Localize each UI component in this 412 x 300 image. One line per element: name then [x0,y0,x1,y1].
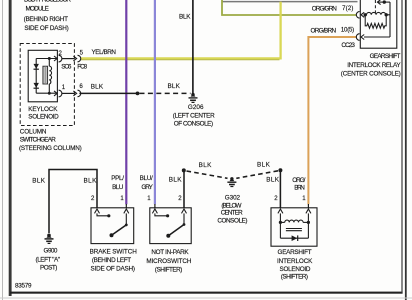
svg-text:(SHIFTER): (SHIFTER) [281,273,308,280]
junction dot relay coil right [385,13,388,16]
keylock pin 2 arrow [54,56,57,61]
svg-text:BLK: BLK [179,13,191,20]
micro pin 1 arrow [152,209,157,213]
micro pin 2 contact [183,213,186,226]
wire BLK G900 run [49,170,97,234]
micro pin 1 stub [154,204,156,208]
svg-text:INTERLOCK: INTERLOCK [277,258,313,265]
svg-text:CENTER: CENTER [221,210,243,217]
label KEYLOCK SOLENOID [28,106,59,120]
solenoid pin 1 arrow [306,209,311,213]
svg-text:BLU: BLU [112,184,124,191]
relay actuator dashed line [374,0,376,13]
label BRAKE SWITCH (BEHIND LEFT SIDE OF DASH) [90,248,138,272]
wire BLK dashed left to G302 [187,171,228,178]
svg-text:(SHIFTER): (SHIFTER) [155,266,183,273]
wire BLK dashed right to G302 [236,171,278,179]
svg-text:BLK: BLK [168,83,181,90]
relay pin 10(5) socket [356,34,359,41]
svg-text:SC6: SC6 [61,63,72,70]
svg-text:MODULE: MODULE [26,6,49,13]
junction dot relay coil left [364,13,367,16]
keylock coil L1 [43,59,52,94]
svg-text:NOT IN-PARK: NOT IN-PARK [151,249,189,256]
svg-text:G206: G206 [188,104,204,111]
label PPL/ BLU [111,175,124,191]
svg-text:ORG/: ORG/ [292,177,305,184]
relay internal wire right [389,2,391,37]
svg-text:YEL/BRN: YEL/BRN [92,49,117,56]
svg-text:(BEHIND RIGHT: (BEHIND RIGHT [24,16,69,23]
relay pin 7(2) arrow [361,12,364,17]
diode D2 (keylock lower) [34,83,39,88]
junction dot left (G302 net) [182,168,186,172]
gearshift interlock solenoid L2 box [271,208,317,246]
relay resistor R1 [365,15,386,28]
label COLUMN SWITCHGEAR (STEERING COLUMN) [19,128,82,152]
svg-text:5: 5 [80,50,84,57]
junction dot right (G302 net) [278,168,282,172]
svg-text:G900: G900 [44,248,58,255]
keylock internal top rail [36,58,57,60]
junction dot solenoid right [307,221,310,224]
junction dot keylock bottom [48,92,51,95]
svg-text:GEARSHIFT: GEARSHIFT [278,249,312,256]
relay coil [365,12,390,14]
wire PPL/BLU vertical [125,0,127,204]
svg-text:2: 2 [59,50,63,57]
svg-text:BLK: BLK [91,83,104,90]
label ORG/ BRN (solenoid pin1) [292,177,305,192]
svg-text:BLK: BLK [257,161,271,168]
relay pin 10(5) arrow [361,35,364,40]
svg-text:BRAKE SWITCH: BRAKE SWITCH [90,248,138,255]
svg-text:BLK: BLK [199,162,213,169]
svg-text:MICROSWITCH: MICROSWITCH [146,258,192,265]
right inner border [401,0,403,293]
relay armature wire [377,0,390,5]
svg-text:SWITCHGEAR: SWITCHGEAR [20,136,56,143]
svg-text:SIDE OF DASH): SIDE OF DASH) [91,265,136,272]
ground G206 [189,93,198,103]
svg-text:SOLENOID: SOLENOID [280,266,311,273]
wire BLK to G206 vertical [192,0,194,94]
right outer border bar [405,0,407,300]
module U1 label: BODY PROCESSOR MODULE (cut at top) [24,0,72,32]
connector SC6 pin 1 socket [59,90,62,97]
brake switch lever [110,225,127,237]
svg-text:10(5): 10(5) [341,27,354,34]
column switchgear dashed box [20,44,74,126]
svg-text:GRY: GRY [141,184,153,191]
svg-text:6: 6 [79,83,83,90]
svg-text:BLK: BLK [266,177,280,184]
micro pin 1 contact [155,213,169,217]
svg-text:BODY PROCESSOR: BODY PROCESSOR [24,0,71,4]
micro pin 2 arrow [182,209,187,213]
svg-text:1: 1 [120,195,124,202]
wire BLK micro pin 2 vertical [183,170,185,207]
svg-text:2: 2 [91,195,95,202]
brake pin 2 arrow [95,209,100,213]
connector FC8 pin 5 arrow [73,56,76,61]
label GEARSHIFT INTERLOCK RELAY (CENTER CONSOLE) [341,53,402,78]
keylock solenoid box [28,50,57,102]
not in-park microswitch S2 box [150,208,191,244]
svg-text:(BEHIND LEFT: (BEHIND LEFT [92,257,131,264]
svg-text:1: 1 [302,195,306,202]
solenoid left branch [279,213,281,238]
svg-text:83579: 83579 [15,283,32,290]
wire YEL/BRN [81,2,281,60]
svg-text:GEARSHIFT: GEARSHIFT [370,53,401,60]
relay pin 7(2) socket [356,12,359,19]
svg-text:CONSOLE): CONSOLE) [217,217,247,224]
svg-text:OF CONSOLE): OF CONSOLE) [174,121,213,128]
svg-text:1: 1 [62,84,66,91]
solenoid pin 2 arrow [278,209,283,213]
svg-text:(BELOW: (BELOW [221,202,241,209]
svg-text:KEYLOCK: KEYLOCK [28,106,58,113]
gearshift interlock relay K1 box [360,0,397,48]
keylock diode branch wire [35,59,37,94]
svg-text:FC8: FC8 [77,63,87,70]
svg-text:BLU/: BLU/ [140,175,153,182]
diode D3 (solenoid) [292,235,298,241]
solenoid right branch [307,213,309,238]
svg-text:2: 2 [178,195,182,202]
keylock internal bottom rail [36,92,57,94]
wire BLK top (cut horizontal at top) [222,1,358,3]
wire SC6-FC8 pin1 [62,92,75,94]
svg-text:BRN: BRN [294,184,305,191]
label GEARSHIFT INTERLOCK SOLENOID (SHIFTER) [277,249,313,280]
svg-text:1: 1 [147,195,151,202]
wire ORG/BRN [308,37,356,204]
wire BLK splice to G206 (dashed) [140,92,191,94]
wire SC6-FC8 pin2 [62,58,75,60]
connector FC8 pin 5 socket [78,55,81,62]
microswitch lever [166,225,184,238]
junction dot solenoid left [279,221,282,224]
bottom margin gray line [0,297,412,299]
wire BLK keylock to splice (solid) [79,92,137,94]
wire BLU/GRY vertical [154,0,156,204]
svg-text:(LEFT "A": (LEFT "A" [36,257,61,264]
bottom page border [10,292,403,294]
page margin gray line left [2,0,4,300]
svg-text:(STEERING COLUMN): (STEERING COLUMN) [19,145,82,152]
ground G302 [227,177,236,186]
label NOT IN-PARK MICROSWITCH (SHIFTER) [146,249,192,273]
relay pin 10(5) internal wire [364,36,390,38]
solenoid coil [280,220,308,231]
solenoid pin 1 stub [307,204,309,208]
brake switch S1 box [91,208,134,244]
ground G900 [45,234,54,244]
junction dot keylock top [48,57,51,60]
splice junction dot [136,92,140,96]
brake pin 1 arrow [124,209,129,213]
svg-text:PPL/: PPL/ [111,175,124,182]
svg-text:INTERLOCK RELAY: INTERLOCK RELAY [347,62,401,69]
label BLU/ GRY [140,175,154,191]
svg-text:G302: G302 [225,194,241,201]
brake pin 1 contact [125,213,128,226]
wire BLK solenoid pin 2 vertical [279,170,281,208]
svg-text:ORG/BRN: ORG/BRN [311,27,337,34]
brake pin 1 stub [125,204,127,208]
svg-text:7(2): 7(2) [342,5,353,12]
brake pin 2 contact [97,213,110,217]
svg-text:ORG/GRN: ORG/GRN [312,5,338,12]
connector SC6 pin 2 socket [59,55,62,62]
diode D1 (keylock upper) [34,64,39,69]
svg-text:(CENTER CONSOLE): (CENTER CONSOLE) [341,71,401,78]
svg-text:CC23: CC23 [341,42,355,49]
svg-text:SIDE OF DASH): SIDE OF DASH) [24,25,68,32]
svg-text:SOLENOID: SOLENOID [28,113,59,120]
svg-text:2: 2 [274,195,278,202]
connector FC8 pin 6 arrow [73,91,76,96]
svg-text:BLK: BLK [84,177,98,184]
svg-text:(LEFT CENTER: (LEFT CENTER [173,112,215,119]
svg-text:BLK: BLK [169,177,183,184]
wire ORG/GRN [222,0,356,15]
left page border bar [9,0,12,296]
solenoid bottom wire [280,237,308,239]
keylock pin 1 arrow [54,91,57,96]
svg-text:COLUMN: COLUMN [20,128,47,135]
svg-text:BLK: BLK [32,177,46,184]
connector FC8 pin 6 socket [78,90,81,97]
svg-text:POST): POST) [40,265,57,272]
